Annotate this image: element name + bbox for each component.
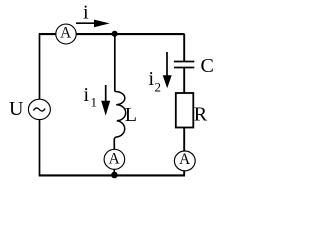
wire middle branch (inductor branch) xyxy=(114,34,116,92)
wire middle branch lower xyxy=(113,139,115,176)
svg-text:2: 2 xyxy=(155,80,162,95)
junction node top (dot) xyxy=(112,31,118,37)
current arrow i1 (inductor branch) xyxy=(101,85,110,116)
junction node bottom (dot) xyxy=(111,172,118,179)
wire right branch upper (to capacitor) xyxy=(183,34,185,62)
source U (AC source circle) xyxy=(28,99,50,119)
ammeter A3 (RC branch) xyxy=(174,151,195,171)
svg-text:C: C xyxy=(201,55,214,77)
svg-text:A: A xyxy=(179,151,190,168)
svg-text:A: A xyxy=(109,150,120,167)
svg-text:A: A xyxy=(60,24,71,41)
svg-text:i: i xyxy=(83,2,89,24)
wire right branch lower (capacitor to bottom) xyxy=(183,68,185,176)
inductor L (coil, 3 arcs) xyxy=(115,91,126,138)
capacitor C (two plates) xyxy=(174,62,194,68)
ammeter A1 (top, total current) xyxy=(56,24,76,44)
svg-text:L: L xyxy=(125,104,137,126)
svg-text:i: i xyxy=(84,84,90,106)
resistor R (rectangle) xyxy=(176,93,194,128)
wire top (node between source and branches) xyxy=(39,33,185,35)
wire bottom (common return) xyxy=(39,174,185,176)
wire left (source branch vertical) xyxy=(39,33,41,175)
current arrow i2 (RC branch) xyxy=(163,52,172,88)
ammeter A2 (inductor branch) xyxy=(104,149,125,169)
svg-text:U: U xyxy=(9,98,24,120)
svg-text:R: R xyxy=(194,104,208,126)
current arrow i (top) xyxy=(76,20,110,28)
svg-text:1: 1 xyxy=(91,95,98,110)
